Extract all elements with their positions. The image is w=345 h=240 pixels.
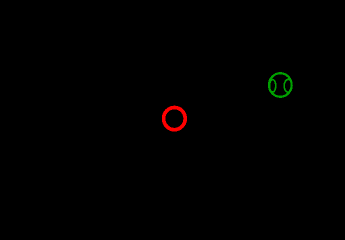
oxygen atom label O (red ring): [164, 108, 186, 130]
chlorine atom glyph (green ring with two inner lobes): [269, 73, 292, 97]
